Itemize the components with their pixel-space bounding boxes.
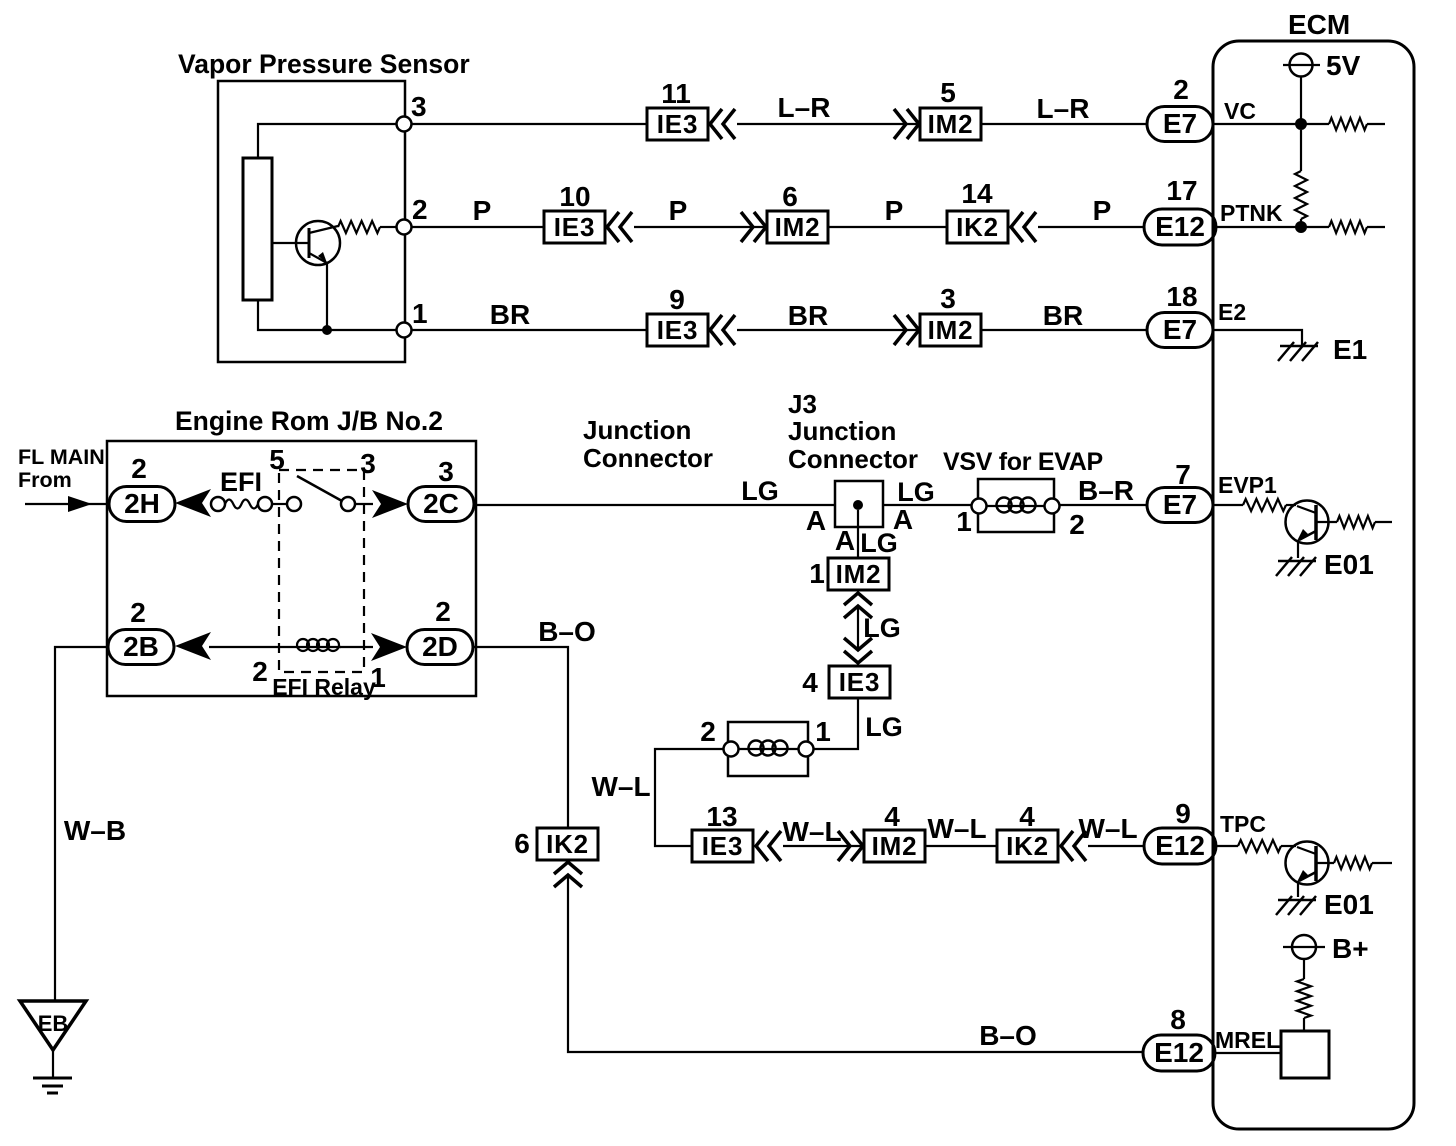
fusible link 2B: [108, 630, 174, 665]
pin number 13: [706, 801, 737, 832]
ground E01 (TPC): [1276, 896, 1316, 915]
svg-text:IM2: IM2: [872, 831, 918, 861]
chevrons at IM2 3: [894, 315, 919, 345]
pin number 9: [669, 284, 685, 315]
ECM pin name MREL: [1215, 1027, 1280, 1053]
wire IK2 14 to E12 17: [1038, 226, 1144, 228]
svg-text:5: 5: [940, 77, 956, 108]
svg-text:IM2: IM2: [775, 212, 821, 242]
sensor pin 2: [397, 220, 412, 235]
connector IM2 1: [828, 558, 889, 590]
svg-text:EFI Relay: EFI Relay: [272, 674, 376, 700]
svg-text:A: A: [806, 505, 826, 536]
wire IM2 3 to E7 18: [981, 329, 1147, 331]
svg-text:2H: 2H: [124, 488, 160, 519]
wire coil to arrow: [339, 646, 373, 648]
svg-text:A: A: [835, 525, 855, 556]
chevrons at IE3 11: [710, 109, 735, 139]
relay output 2C: [408, 487, 474, 522]
wire TPC collector: [1316, 862, 1334, 864]
svg-text:4: 4: [884, 801, 900, 832]
svg-text:VC: VC: [1224, 98, 1256, 124]
sensor pin 1: [397, 323, 412, 338]
svg-text:3: 3: [360, 448, 376, 479]
wire label P (4): [1093, 195, 1112, 226]
svg-text:4: 4: [802, 667, 818, 698]
E01 label (EVP1): [1324, 549, 1374, 580]
black arrow left (2H): [175, 489, 211, 517]
junction coil pin number 1: [815, 716, 831, 747]
wire label W-L (3): [927, 813, 986, 844]
sensor element (piezo resistor): [243, 158, 272, 300]
wire label LG (4): [863, 613, 901, 643]
relay pin number 2: [252, 656, 268, 687]
svg-text:2D: 2D: [422, 631, 458, 662]
ECM box: [1213, 41, 1414, 1129]
svg-text:E12: E12: [1154, 1037, 1204, 1068]
wire label BR (2): [788, 300, 828, 331]
pin number 18: [1166, 281, 1197, 312]
svg-text:Engine Rom J/B No.2: Engine Rom J/B No.2: [175, 406, 443, 436]
wire label BR (3): [1043, 300, 1083, 331]
connector IM2 6: [767, 211, 828, 243]
svg-text:P: P: [669, 195, 688, 226]
resistor EVP1 base: [1243, 499, 1296, 511]
chevrons at IE3 9: [710, 315, 735, 345]
pin number 7 (E7): [1175, 459, 1191, 490]
pin number 2 (E7): [1173, 74, 1189, 105]
svg-text:IE3: IE3: [702, 831, 743, 861]
wire Q1 emitter down: [326, 263, 328, 330]
svg-text:14: 14: [961, 178, 993, 209]
wire 2B to relay coil: [209, 646, 298, 648]
connector IM2 3: [920, 314, 981, 346]
wire label B-R: [1078, 475, 1134, 506]
black arrow right (2D): [371, 633, 407, 661]
svg-text:P: P: [473, 195, 492, 226]
pin number 6 (IK2): [514, 828, 530, 859]
chevrons at IM2 5: [894, 109, 919, 139]
svg-text:2: 2: [1173, 74, 1189, 105]
svg-text:IK2: IK2: [546, 829, 589, 859]
chevrons at IK2 14: [1011, 212, 1036, 242]
wire relay to arrow: [355, 503, 373, 505]
wire IE3 4 down to junction coil: [813, 698, 858, 749]
wire label W-L (1): [591, 771, 650, 802]
EFI relay dashed box: [279, 470, 364, 672]
resistor VC internal (horizontal): [1329, 118, 1385, 130]
wire label LG (3): [860, 528, 898, 558]
svg-text:2: 2: [131, 453, 147, 484]
wire label BR (1): [490, 299, 530, 330]
chevrons at IK2 4: [1061, 831, 1086, 861]
connector IE3 9: [647, 314, 708, 346]
svg-text:P: P: [885, 195, 904, 226]
chevrons above IE3 4: [844, 638, 872, 663]
svg-text:8: 8: [1170, 1004, 1186, 1035]
svg-text:2: 2: [130, 597, 146, 628]
wire label LG (2): [897, 477, 935, 507]
wire 2B to EB ground: [55, 647, 108, 1000]
wire sensor element bottom to pin 1: [258, 300, 396, 330]
pin number 3 (2C): [438, 456, 454, 487]
wire PTNK into ECM: [1216, 226, 1329, 228]
wire IE3 13 to IM2 4: [783, 845, 864, 847]
wire EVP1 emitter to ground: [1297, 540, 1299, 558]
fuse EFI terminal b: [258, 497, 272, 511]
pin number 4 (IK2): [1019, 801, 1035, 832]
ground E01 (EVP1): [1276, 557, 1316, 576]
resistor PTNK internal (horizontal): [1329, 221, 1385, 233]
black arrow right (2C): [372, 490, 408, 518]
svg-text:B–O: B–O: [538, 616, 596, 647]
wire resistor to relay box: [1303, 1018, 1305, 1031]
svg-text:BR: BR: [490, 299, 530, 330]
wire VSV to E7 7: [1060, 504, 1147, 506]
svg-text:7: 7: [1175, 459, 1191, 490]
wire B+ to resistor: [1303, 959, 1305, 979]
svg-text:1: 1: [412, 298, 428, 329]
pin number 3 (IM2): [940, 283, 956, 314]
svg-text:TPC: TPC: [1220, 811, 1266, 837]
svg-text:Junction: Junction: [788, 416, 896, 446]
pin number 4 (IE3): [802, 667, 818, 698]
wire label B-O (1): [538, 616, 596, 647]
wire IK2 4 to E12 9: [1088, 845, 1144, 847]
junction coil pin number 2: [700, 716, 716, 747]
VSV coil: [986, 498, 1045, 513]
B+ label: [1332, 933, 1369, 964]
svg-text:B–R: B–R: [1078, 475, 1134, 506]
junction connector E7 7: [1147, 488, 1213, 523]
VSV pin number 2: [1069, 509, 1085, 540]
wire label W-L (4): [1078, 813, 1137, 844]
wire E2 to ground: [1213, 330, 1302, 345]
pin number 17: [1166, 175, 1197, 206]
svg-text:ECM: ECM: [1288, 9, 1350, 40]
wire IE3 10 to IM2 6: [634, 226, 767, 228]
resistor TPC collector: [1334, 857, 1392, 869]
sensor pin 2 label: [412, 194, 428, 225]
wire IK2 6 down to MREL row: [568, 874, 1144, 1052]
svg-text:5V: 5V: [1326, 50, 1361, 81]
transistor TPC driver: [1286, 842, 1329, 885]
wire 2D to IK2 6: [473, 647, 568, 828]
wire MREL to relay block: [1215, 1052, 1281, 1054]
svg-text:W–L: W–L: [782, 816, 841, 847]
junction connector E12 8: [1143, 1035, 1215, 1071]
svg-text:Vapor Pressure Sensor: Vapor Pressure Sensor: [178, 49, 470, 79]
svg-text:LG: LG: [860, 528, 898, 558]
svg-text:W–L: W–L: [591, 771, 650, 802]
wire IM2 4 to IK2 4: [925, 845, 997, 847]
node A junction dot (J3): [853, 500, 863, 510]
pin number 9 (E12): [1175, 798, 1191, 829]
junction connector E7 2: [1147, 107, 1213, 142]
pin number 4 (IM2): [884, 801, 900, 832]
chevrons at IE3 10: [607, 212, 632, 242]
chevrons below IK2 6: [554, 862, 582, 887]
wire pin2 to IE3 10: [411, 226, 544, 228]
svg-text:EVP1: EVP1: [1218, 472, 1277, 498]
svg-text:E7: E7: [1163, 489, 1197, 520]
svg-text:B–O: B–O: [979, 1020, 1037, 1051]
pin number 8 (E12): [1170, 1004, 1186, 1035]
connector IM2 4: [864, 830, 925, 862]
E1 label: [1333, 334, 1367, 365]
svg-text:L–R: L–R: [1037, 93, 1090, 124]
resistor MREL pull-up (vertical): [1297, 979, 1311, 1018]
connector IK2 14: [947, 211, 1008, 243]
connector IE3 10: [544, 211, 605, 243]
svg-text:Connector: Connector: [788, 444, 918, 474]
resistor EVP1 collector: [1337, 516, 1392, 528]
junction coil body: [728, 722, 808, 776]
transistor Q1 (sensor): [296, 221, 340, 265]
wire IM2 5 to E7 2: [981, 123, 1147, 125]
junction dot on pin1 wire: [322, 325, 332, 335]
connector IE3 13: [692, 830, 753, 862]
fusible link 2H: [109, 487, 175, 522]
svg-text:E1: E1: [1333, 334, 1367, 365]
VSV terminal 1: [972, 499, 987, 514]
wire IM2 6 to IK2 14: [828, 226, 947, 228]
junction connector E12 9: [1144, 828, 1216, 864]
svg-text:W–L: W–L: [927, 813, 986, 844]
sensor pin 1 label: [412, 298, 428, 329]
pin number 11: [661, 78, 691, 109]
resistor sensor internal (zigzag to pin 2): [338, 221, 396, 233]
pin number 14: [961, 178, 993, 209]
ECM pin name TPC: [1220, 811, 1266, 837]
wire label L-R (1): [778, 92, 831, 123]
svg-text:IE3: IE3: [554, 212, 595, 242]
svg-text:From: From: [18, 468, 72, 492]
wire fuse to relay pin 5: [272, 503, 287, 505]
junction coil winding: [738, 741, 799, 756]
wire label B-O (2): [979, 1020, 1037, 1051]
ECM pin name VC: [1224, 98, 1256, 124]
svg-text:E2: E2: [1218, 299, 1246, 325]
fuse EFI label: [220, 467, 262, 497]
5V supply symbol: [1283, 54, 1320, 77]
svg-text:5: 5: [269, 444, 285, 475]
wire pin3 to IE3 11: [411, 123, 647, 125]
svg-text:BR: BR: [1043, 300, 1083, 331]
wire label LG (1): [741, 476, 779, 506]
svg-text:LG: LG: [897, 477, 935, 507]
svg-text:1: 1: [809, 558, 825, 589]
wire J3 to IM2 1: [857, 510, 859, 558]
ground E1 (chassis): [1278, 342, 1318, 361]
svg-text:3: 3: [438, 456, 454, 487]
svg-text:BR: BR: [788, 300, 828, 331]
svg-text:2: 2: [1069, 509, 1085, 540]
junction connector E12 17: [1144, 209, 1216, 245]
wire J3 to VSV: [883, 504, 972, 506]
svg-text:17: 17: [1166, 175, 1197, 206]
svg-text:E12: E12: [1155, 211, 1205, 242]
svg-text:PTNK: PTNK: [1220, 200, 1283, 226]
vapor pressure sensor box: [218, 81, 405, 362]
node VC junction dot: [1295, 118, 1307, 130]
J3 lower terminal A label: [835, 525, 855, 556]
pin number 1 (IM2): [809, 558, 825, 589]
wire TPC into ECM: [1216, 845, 1238, 847]
svg-text:3: 3: [411, 91, 427, 122]
node PTNK junction dot: [1295, 221, 1307, 233]
svg-text:6: 6: [514, 828, 530, 859]
wire IE3 11 to IM2 5: [737, 123, 920, 125]
svg-text:J3: J3: [788, 389, 817, 419]
pin number 6: [782, 181, 798, 212]
svg-text:IM2: IM2: [928, 109, 974, 139]
ECM pin name PTNK: [1220, 200, 1283, 226]
svg-text:LG: LG: [741, 476, 779, 506]
wire from FL MAIN (arrow): [25, 496, 109, 512]
svg-text:9: 9: [669, 284, 685, 315]
junction connector J3 box: [835, 481, 883, 527]
svg-text:Junction: Junction: [583, 415, 691, 445]
svg-text:Connector: Connector: [583, 443, 713, 473]
connector IE3 11: [647, 108, 708, 140]
ECM label: [1288, 9, 1350, 40]
VSV for EVAP label: [943, 448, 1103, 476]
relay pin number 1: [370, 662, 386, 693]
chevrons at IM2 6: [741, 212, 766, 242]
chevrons below IM2 1: [844, 593, 872, 618]
chevrons at IM2 4: [838, 831, 863, 861]
pin number 2 (2H): [131, 453, 147, 484]
MREL internal relay block: [1281, 1031, 1329, 1078]
svg-text:FL MAIN: FL MAIN: [18, 445, 105, 469]
svg-text:E01: E01: [1324, 889, 1374, 920]
pin number 5: [940, 77, 956, 108]
wire label LG (5): [865, 712, 903, 742]
connector IM2 5: [920, 108, 981, 140]
junction coil terminal 1: [799, 742, 814, 757]
relay pin number 3: [360, 448, 376, 479]
junction connector E7 18: [1147, 313, 1213, 348]
ECM pin name E2: [1218, 299, 1246, 325]
svg-text:IM2: IM2: [928, 315, 974, 345]
svg-text:L–R: L–R: [778, 92, 831, 123]
wire sensor element top to pin 3: [258, 124, 396, 158]
svg-text:2: 2: [412, 194, 428, 225]
black arrow left (2B): [175, 632, 211, 660]
relay switch blade: [297, 476, 342, 501]
svg-text:B+: B+: [1332, 933, 1369, 964]
Junction Connector label: [583, 415, 713, 473]
resistor TPC base: [1238, 840, 1296, 852]
earth ground symbol: [33, 1078, 72, 1093]
svg-text:10: 10: [559, 181, 590, 212]
fuse EFI element: [225, 500, 258, 509]
transistor EVP1 driver: [1286, 501, 1329, 544]
wire label P (2): [669, 195, 688, 226]
sensor pin 3 label: [411, 91, 427, 122]
J3 terminal A left label: [806, 505, 826, 536]
junction block box: [107, 441, 476, 696]
svg-text:MREL: MREL: [1215, 1027, 1280, 1053]
wire IE3 9 to IM2 3: [737, 329, 920, 331]
relay pin number 5: [269, 444, 285, 475]
wire label P (3): [885, 195, 904, 226]
wire label L-R (2): [1037, 93, 1090, 124]
EFI Relay label: [272, 674, 376, 700]
wire EB to earth: [52, 1050, 54, 1078]
chevrons at IE3 13: [756, 831, 781, 861]
relay contact terminal 3: [341, 497, 355, 511]
5V label: [1326, 50, 1361, 81]
svg-text:2B: 2B: [123, 631, 159, 662]
wire IM2 1 to IE3 4: [857, 605, 859, 650]
wire EVP1 into ECM: [1213, 504, 1243, 506]
wire junction coil to IE3 13: [655, 749, 724, 846]
svg-text:3: 3: [940, 283, 956, 314]
svg-text:IE3: IE3: [657, 109, 698, 139]
junction coil terminal 2: [724, 742, 739, 757]
wire label P (1): [473, 195, 492, 226]
svg-text:9: 9: [1175, 798, 1191, 829]
VSV for EVAP body: [978, 479, 1054, 532]
Engine Rom J/B No.2 label: [175, 406, 443, 436]
svg-text:E12: E12: [1155, 830, 1205, 861]
VSV pin number 1: [956, 506, 972, 537]
svg-text:IK2: IK2: [1006, 831, 1049, 861]
ground EB triangle: [20, 1001, 86, 1050]
svg-text:4: 4: [1019, 801, 1035, 832]
relay output 2D: [407, 630, 473, 665]
svg-text:IK2: IK2: [956, 212, 999, 242]
connector IK2 6: [537, 828, 598, 860]
svg-text:P: P: [1093, 195, 1112, 226]
fuse EFI terminal a: [211, 497, 225, 511]
relay coil L1: [296, 639, 341, 651]
svg-text:1: 1: [815, 716, 831, 747]
wire TPC emitter to ground: [1297, 881, 1299, 897]
transistor Q1 base wire: [272, 242, 309, 244]
svg-text:2: 2: [700, 716, 716, 747]
wire VC into ECM: [1213, 123, 1329, 125]
pin number 2 (2B): [130, 597, 146, 628]
VSV terminal 2: [1045, 499, 1060, 514]
svg-text:2: 2: [252, 656, 268, 687]
B+ supply symbol: [1283, 935, 1325, 959]
connector IK2 4: [997, 830, 1058, 862]
svg-text:LG: LG: [865, 712, 903, 742]
J3 terminal A right label: [893, 504, 913, 535]
wire 5V to VC node: [1300, 77, 1302, 124]
svg-text:W–B: W–B: [64, 815, 126, 846]
svg-text:IE3: IE3: [657, 315, 698, 345]
svg-text:13: 13: [706, 801, 737, 832]
svg-text:6: 6: [782, 181, 798, 212]
relay contact terminal 5: [287, 497, 301, 511]
pin number 2 (2D): [435, 596, 451, 627]
wire EVP1 collector: [1316, 521, 1337, 523]
Vapor Pressure Sensor label: [178, 49, 470, 79]
wire 2C to J3: [474, 504, 835, 506]
ECM pin name EVP1: [1218, 472, 1277, 498]
svg-text:IM2: IM2: [836, 559, 882, 589]
svg-text:11: 11: [661, 78, 691, 109]
svg-text:E7: E7: [1163, 314, 1197, 345]
wire label W-L (2): [782, 816, 841, 847]
svg-text:2: 2: [435, 596, 451, 627]
resistor VC-PTNK (vertical): [1295, 130, 1307, 227]
svg-text:EB: EB: [38, 1011, 69, 1036]
